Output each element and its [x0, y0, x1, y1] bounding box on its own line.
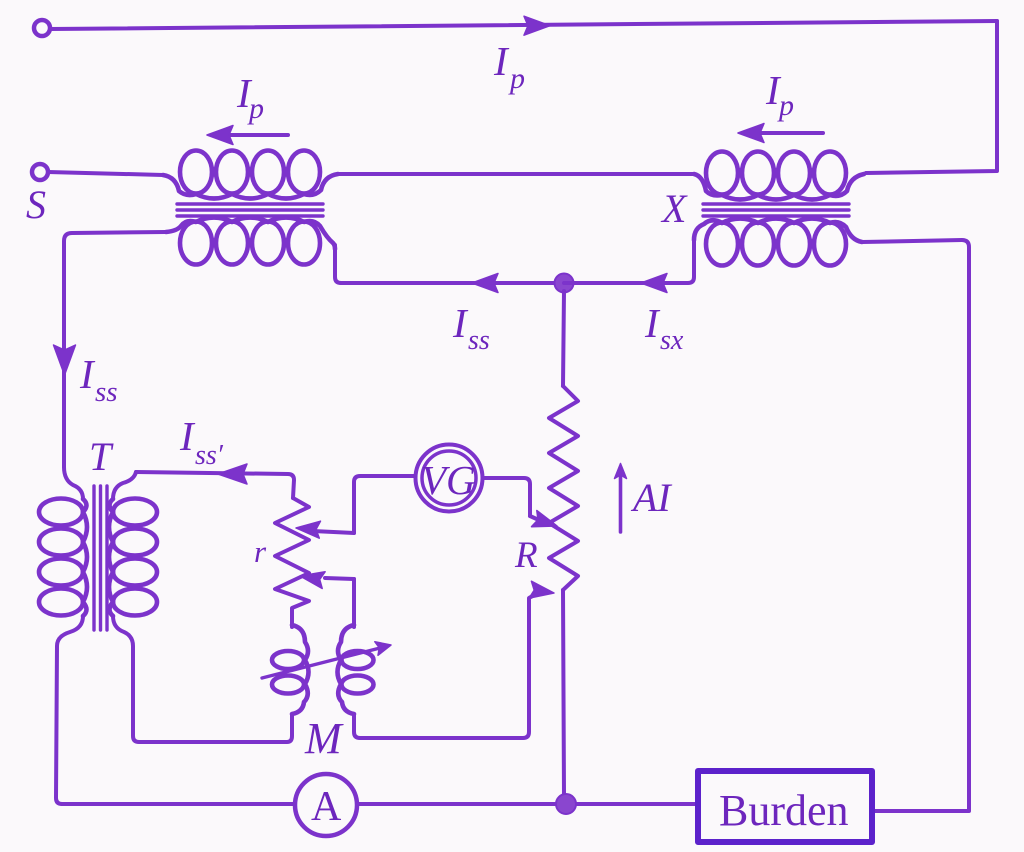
ammeter A [295, 774, 357, 836]
svg-text:I: I [493, 38, 510, 84]
arrow AI [619, 477, 623, 532]
transformer T right bottom lead [113, 616, 292, 742]
wire top [50, 21, 997, 29]
mutual inductor M left coil [272, 625, 309, 714]
wire S secondary left to left column [64, 232, 166, 467]
arrow R wiper lower [529, 581, 554, 598]
terminal P1 [34, 20, 50, 36]
svg-text:ss′: ss′ [195, 440, 224, 471]
svg-text:AI: AI [630, 475, 672, 520]
arrow Isx on wire [641, 274, 667, 293]
wire between transformers [338, 172, 694, 176]
svg-text:I: I [79, 351, 96, 397]
svg-text:VG: VG [421, 457, 476, 503]
arrow Iss' [218, 464, 247, 484]
transformer X secondary coil [694, 219, 862, 266]
wire S secondary right down to junction line [335, 245, 341, 283]
transformer T left coil [39, 499, 87, 617]
svg-text:p: p [247, 92, 264, 125]
wire right-top vertical [866, 21, 997, 173]
junction node [555, 274, 574, 293]
svg-text:I: I [452, 300, 469, 346]
wiper r upper [313, 531, 354, 533]
galvanometer VG [416, 445, 483, 512]
mutual inductor M right coil [338, 625, 374, 714]
wire bottom [62, 802, 698, 806]
wire junction left segment [341, 281, 562, 285]
burden box [698, 771, 872, 842]
resistor R bottom lead [563, 590, 564, 796]
svg-text:S: S [26, 182, 46, 227]
transformer S secondary coil [166, 218, 335, 265]
wire junction right segment [564, 240, 694, 283]
transformer X primary coil [694, 152, 864, 200]
wiper r lower [325, 578, 354, 579]
wire wiper r to VG [354, 476, 415, 533]
svg-text:I: I [179, 413, 196, 459]
resistor R top lead [563, 291, 564, 386]
svg-text:I: I [644, 300, 661, 346]
wire Iss' from T to r [136, 472, 294, 498]
wire wiper r lower to M right coil [352, 579, 356, 627]
arrow Ip top [524, 16, 550, 35]
resistor R [549, 386, 578, 590]
svg-text:sx: sx [660, 325, 684, 356]
transformer X core [703, 204, 849, 216]
transformer S primary coil [163, 151, 338, 199]
transformer T right top lead [113, 472, 136, 499]
rheostat r [275, 498, 309, 627]
svg-text:M: M [304, 714, 344, 763]
svg-text:Burden: Burden [719, 786, 849, 835]
transformer T right coil [109, 499, 157, 617]
arrow M adjust [262, 648, 380, 678]
wire VG to R wiper [483, 478, 530, 516]
svg-text:p: p [777, 89, 794, 122]
svg-text:ss: ss [95, 376, 118, 408]
wire X secondary right [862, 240, 969, 811]
arrow Ip over S [215, 133, 288, 137]
wire S lead [48, 172, 163, 175]
svg-text:p: p [508, 62, 525, 95]
svg-text:r: r [254, 534, 267, 569]
svg-text:X: X [660, 186, 688, 231]
junction node bottom [556, 794, 576, 814]
transformer T top lead curve [64, 467, 83, 499]
transformer T left bottom lead [56, 616, 83, 804]
svg-text:T: T [89, 434, 114, 479]
arrow Ip over X [747, 131, 823, 135]
transformer S core [177, 204, 323, 216]
svg-text:ss: ss [468, 325, 490, 356]
svg-text:R: R [514, 535, 538, 576]
transformer T core [94, 486, 107, 630]
svg-text:A: A [311, 784, 342, 830]
arrow Iss down left column [54, 345, 76, 375]
terminal S [32, 164, 48, 180]
wire M right coil down and to R wiper lower [354, 594, 536, 738]
arrow Iss on wire [472, 274, 498, 293]
arrow R wiper upper [530, 516, 541, 521]
